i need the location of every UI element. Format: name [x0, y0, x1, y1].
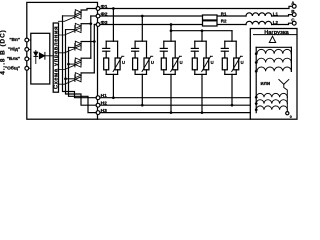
- svg-text:R2: R2: [221, 18, 227, 23]
- svg-text:R1: R1: [221, 12, 227, 17]
- svg-text:Ф3: Ф3: [101, 20, 108, 26]
- svg-text:"Нід": "Нід": [8, 47, 20, 53]
- svg-text:"Общ": "Общ": [5, 65, 20, 72]
- svg-text:U: U: [241, 60, 244, 65]
- svg-text:"Вп": "Вп": [9, 37, 20, 43]
- svg-text:0: 0: [290, 115, 292, 119]
- svg-text:U: U: [180, 60, 183, 65]
- svg-text:Н1: Н1: [101, 93, 108, 99]
- svg-text:U: U: [122, 60, 125, 65]
- svg-text:4...8 В (DC): 4...8 В (DC): [0, 29, 7, 75]
- svg-text:или: или: [260, 81, 270, 87]
- svg-text:Ф2: Ф2: [101, 12, 108, 18]
- svg-text:U: U: [211, 60, 214, 65]
- svg-text:U: U: [151, 60, 154, 65]
- svg-text:Н2: Н2: [101, 101, 108, 107]
- svg-text:Н3: Н3: [101, 108, 108, 114]
- svg-text:"Блк": "Блк": [7, 56, 20, 62]
- svg-text:Ф1: Ф1: [101, 4, 108, 10]
